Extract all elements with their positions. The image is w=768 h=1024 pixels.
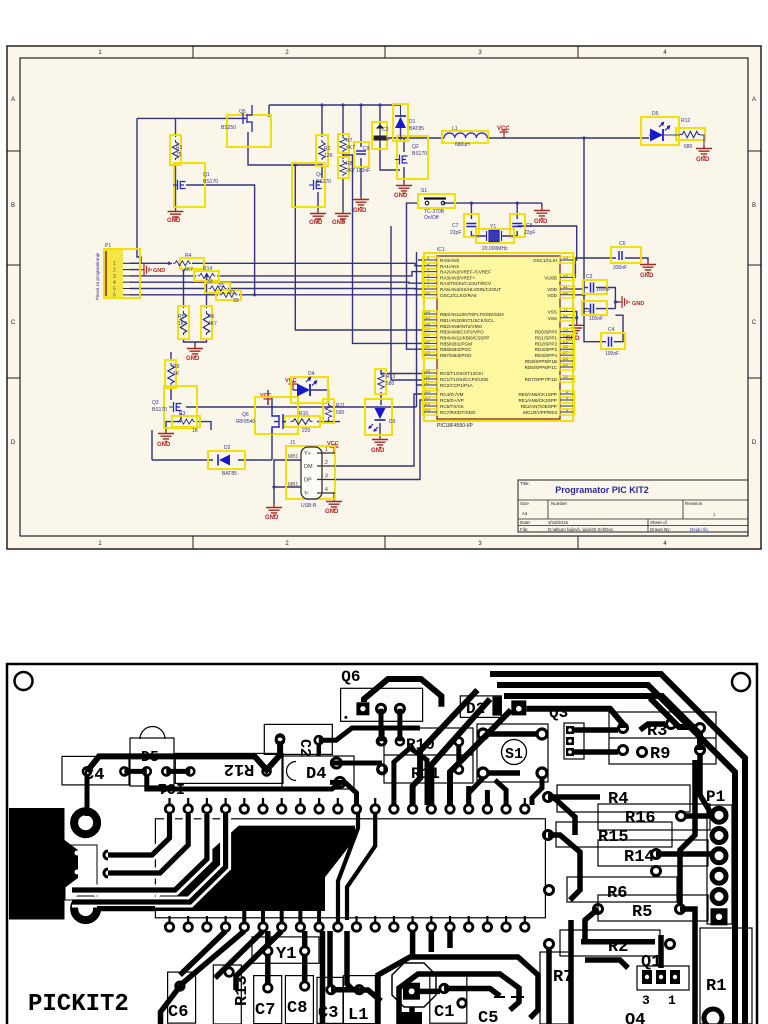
S1 outline [477, 724, 548, 782]
trace diag bottom4 [180, 931, 226, 975]
svg-text:RD6/SPP6/P1C: RD6/SPP6/P1C [525, 365, 558, 370]
trace usb5 [97, 906, 155, 911]
wire gnd stem crystal [541, 203, 543, 207]
svg-text:R3: R3 [647, 722, 667, 741]
svg-text:GND: GND [371, 448, 385, 454]
svg-text:3: 3 [642, 993, 650, 1008]
svg-text:Y-: Y- [304, 491, 309, 497]
wire R9 top [170, 352, 172, 361]
svg-text:4: 4 [113, 280, 116, 286]
ground usb shield [266, 504, 282, 516]
wire R2 top drop [321, 105, 323, 137]
inductor L1 [444, 133, 487, 138]
trace L1 to octagon [359, 990, 381, 1001]
svg-text:GND: GND [394, 193, 408, 199]
component symbols [106, 105, 704, 499]
DIP socket outline [155, 819, 545, 918]
svg-text:Sheet of: Sheet of [650, 520, 668, 525]
switch S1 [424, 199, 446, 205]
ground C6 [640, 261, 656, 273]
svg-text:RB5/KBI1/PGM: RB5/KBI1/PGM [440, 341, 472, 346]
svg-text:Programator PIC KIT2: Programator PIC KIT2 [555, 485, 649, 495]
svg-text:P1: P1 [105, 243, 111, 249]
resistor R13 [378, 373, 384, 390]
wire C3 C5 left plates [584, 288, 588, 309]
wire D2 row [152, 430, 272, 460]
svg-text:100nF: 100nF [589, 316, 603, 322]
wire cap C9 bottom [360, 158, 362, 196]
transistor Q4 [309, 180, 322, 190]
wire Q3 channel gnd [166, 413, 181, 430]
C7 outline [254, 976, 282, 1024]
R4 outline [557, 785, 690, 812]
wire usb vcc pin1 [334, 452, 335, 454]
Q6 outline [341, 688, 423, 721]
svg-text:R9: R9 [173, 364, 180, 370]
svg-text:File:: File: [520, 527, 529, 532]
wire C7 column [471, 203, 485, 236]
svg-text:VUSB: VUSB [544, 275, 557, 280]
capacitor elco C2 [374, 123, 386, 143]
trace Q1 verticals [571, 920, 628, 1024]
box C6 [611, 247, 641, 263]
box R14 [194, 271, 219, 281]
svg-text:A4: A4 [522, 511, 528, 516]
svg-text:R14: R14 [624, 848, 655, 867]
wire Q4 source gnd [317, 192, 319, 210]
resistor R2 [319, 140, 325, 160]
box R6 [201, 306, 212, 339]
R12 outline [175, 753, 283, 783]
wire cap C9 top drop [360, 105, 362, 147]
box P1 body [104, 249, 140, 298]
junction dots [167, 103, 617, 488]
capacitor C5 [591, 304, 594, 314]
bottom component row outlines [168, 937, 570, 1024]
svg-text:GND: GND [534, 219, 548, 225]
box R9 [165, 360, 176, 388]
R5 outline [598, 895, 708, 921]
svg-text:680: 680 [684, 144, 693, 150]
svg-text:Q5: Q5 [239, 109, 246, 115]
svg-text:DM: DM [304, 464, 313, 470]
Y1 outline [252, 937, 319, 963]
box D3 [365, 399, 392, 435]
box R11 [323, 399, 334, 423]
Q6 square pad [356, 702, 369, 715]
box R12 [676, 128, 705, 140]
title block [518, 480, 748, 532]
svg-text:D4: D4 [306, 765, 326, 784]
svg-text:J1: J1 [290, 440, 296, 446]
box Q4 [292, 163, 325, 207]
svg-text:P1: P1 [706, 788, 725, 806]
svg-text:C5: C5 [478, 1009, 498, 1024]
P1 header pcb [706, 788, 732, 925]
trace R15 R14 zig [548, 835, 580, 900]
svg-text:C6: C6 [619, 241, 626, 247]
C2 outline [264, 724, 332, 754]
C8 outline [285, 976, 313, 1024]
svg-text:BS170: BS170 [412, 151, 427, 157]
capacitor C9 [356, 151, 366, 154]
resistor R3 [177, 419, 195, 424]
wire D4 anode [293, 389, 299, 391]
bus wire P1 row6 res33 [130, 294, 255, 296]
box C3 [583, 280, 607, 294]
R1 outline pcb [700, 928, 752, 1024]
svg-text:D5: D5 [652, 111, 659, 117]
ground vss [569, 322, 585, 334]
wire q4 gate vertical into RB3 [295, 165, 424, 330]
box res33b [216, 290, 241, 300]
svg-text:RD2/SPP2: RD2/SPP2 [535, 341, 558, 346]
svg-text:Drawn By:: Drawn By: [650, 527, 671, 532]
box R4 [180, 258, 204, 269]
svg-text:GND: GND [167, 218, 181, 224]
svg-text:4K7: 4K7 [208, 321, 217, 327]
svg-text:RA4/T0CKI/C1OUT/RCV: RA4/T0CKI/C1OUT/RCV [440, 281, 492, 286]
svg-text:R9: R9 [650, 745, 670, 764]
wire R13 to D3 [380, 392, 382, 405]
LED D3 [369, 408, 386, 431]
wire C3 right [596, 288, 619, 309]
wire C4 right up [614, 315, 623, 342]
black pad D1 bottom [399, 1012, 422, 1024]
R10 R11 pads [378, 737, 463, 774]
wire Q2 drain to rail [403, 138, 405, 152]
trace R4 pad [548, 797, 600, 835]
ground usb pin4 [326, 498, 342, 510]
svg-text:GND: GND [157, 442, 171, 448]
svg-text:33: 33 [229, 290, 235, 296]
bus wire P1 row3 R14 [130, 272, 424, 276]
trace Q6 inverted V [364, 679, 441, 707]
R2 outline [560, 930, 660, 956]
box J1 [286, 446, 335, 499]
box Y1 [476, 229, 514, 243]
svg-text:5: 5 [113, 286, 116, 292]
svg-text:VDD: VDD [547, 293, 557, 298]
box R2 [316, 135, 328, 166]
octagon D1 [392, 963, 436, 1007]
svg-text:3/18/2015: 3/18/2015 [548, 520, 569, 525]
svg-text:22pF: 22pF [450, 230, 461, 236]
USB signal pads [104, 851, 112, 877]
wire S1 right to gnd crystal net [443, 202, 542, 204]
svg-text:BS170: BS170 [316, 179, 331, 185]
USB shield pad bottom [74, 897, 97, 920]
svg-text:OSC1/CLKI: OSC1/CLKI [533, 258, 557, 263]
svg-text:GND: GND [696, 157, 710, 163]
svg-text:3: 3 [113, 274, 116, 280]
svg-text:RB1/AN10/INT1/SCK/SCL: RB1/AN10/INT1/SCK/SCL [440, 318, 494, 323]
svg-text:RC5/D+/VP: RC5/D+/VP [440, 398, 464, 403]
transistor Q3 [169, 402, 182, 412]
trace channel 2 [347, 812, 375, 920]
svg-text:Q6: Q6 [341, 668, 360, 686]
wire D4 cathode to R11 [311, 390, 329, 399]
svg-text:R3: R3 [179, 411, 186, 417]
wire Q6 vcc stem [267, 390, 269, 405]
svg-text:R2: R2 [324, 146, 331, 152]
svg-text:C2: C2 [382, 127, 389, 133]
wire R3 row [174, 422, 211, 430]
svg-text:RC6/TX/CK: RC6/TX/CK [440, 404, 465, 409]
bus wire P1 row1 R4 [130, 263, 424, 266]
box D4 [291, 377, 328, 403]
svg-text:R15: R15 [598, 828, 629, 847]
C4 outline [62, 756, 129, 785]
trace diagA [413, 690, 478, 805]
svg-text:1: 1 [325, 447, 328, 453]
box Q3 [164, 386, 197, 428]
ground sideways C3 C5 [619, 296, 629, 308]
transistor Q1 [173, 180, 186, 190]
wire vcc drop to vdd caps [584, 138, 606, 342]
svg-text:GND: GND [640, 273, 654, 279]
L1 outline [343, 976, 375, 1024]
trace tr3 [504, 696, 700, 750]
svg-text:L1: L1 [452, 126, 458, 132]
svg-text:R5: R5 [178, 314, 185, 320]
ground R5 R6 [187, 345, 203, 357]
traces Q3 foot to right [574, 724, 665, 752]
svg-text:GND: GND [332, 220, 346, 226]
bottom pads pour stems [244, 911, 319, 922]
R10 R11 outline [384, 728, 473, 783]
svg-text:Q4: Q4 [316, 172, 323, 178]
svg-text:RE2/AN7/OESPP: RE2/AN7/OESPP [521, 404, 557, 409]
box R7 [338, 134, 349, 153]
wire R1 bottom to gate and gnd [175, 163, 177, 208]
trace C3 verticals [323, 931, 331, 1024]
wire vdd pins join [573, 289, 584, 295]
trace Y1 pads down [268, 956, 305, 983]
svg-text:D: D [752, 440, 757, 446]
top right thick trace bundle [490, 674, 745, 1024]
R13 outline [213, 965, 241, 1024]
svg-text:2K7: 2K7 [346, 168, 355, 174]
svg-text:S1: S1 [505, 746, 523, 763]
wire Q5 drain down and right [248, 132, 322, 165]
svg-text:BS250: BS250 [221, 125, 236, 131]
svg-text:RE1/AN6/CK2SPP: RE1/AN6/CK2SPP [518, 398, 557, 403]
yellow selection boxes [104, 104, 705, 499]
wire usb pin4 gnd [334, 493, 335, 498]
svg-text:L1: L1 [348, 1006, 368, 1024]
svg-text:IC1: IC1 [437, 247, 445, 253]
trace diagB [431, 699, 490, 805]
DIP pads bottom stems [170, 916, 525, 923]
wire R13 top to RC0 [381, 370, 424, 374]
resistor R6 [203, 311, 209, 335]
wire R2 bottom to Q4 gate [321, 163, 323, 178]
svg-text:RB2/AN8/INT2/VMO: RB2/AN8/INT2/VMO [440, 324, 483, 329]
ground R12 [696, 145, 712, 157]
svg-text:Q4: Q4 [625, 1011, 645, 1024]
resistor R14 [198, 273, 216, 278]
svg-text:GND: GND [325, 509, 339, 515]
svg-text:R12: R12 [224, 759, 255, 778]
DIP pads bottom row [165, 923, 529, 931]
svg-text:RC4/D-/VM: RC4/D-/VM [440, 392, 464, 397]
ground C9 [353, 196, 369, 208]
USB region outline [65, 845, 97, 900]
box R3 [172, 416, 200, 427]
svg-text:RC7/RX/DT/SDO: RC7/RX/DT/SDO [440, 410, 476, 415]
wire R10 right to R11 [317, 421, 340, 423]
inner frame [20, 58, 748, 536]
svg-text:VDD: VDD [547, 287, 557, 292]
trace pad topright up1 [394, 748, 427, 805]
svg-text:RA3/AN3/VREF+: RA3/AN3/VREF+ [440, 275, 476, 280]
wire C8 column [503, 203, 517, 236]
trace diag bottom3 [236, 931, 282, 990]
svg-text:C5: C5 [584, 308, 591, 314]
svg-text:100nF: 100nF [356, 168, 370, 174]
svg-text:BAT85: BAT85 [222, 471, 237, 477]
D2 cathode bar [492, 697, 501, 716]
svg-text:R4: R4 [185, 253, 192, 259]
svg-text:4: 4 [325, 487, 328, 493]
IC1 PIC18F4550 [423, 247, 575, 429]
svg-text:4K7: 4K7 [184, 267, 193, 273]
R3 R9 block [609, 712, 716, 764]
svg-text:RA1/AN1: RA1/AN1 [440, 264, 460, 269]
trace x347 vertical [347, 931, 352, 989]
vcc main rail [500, 130, 509, 138]
D4 outline [282, 756, 354, 789]
trace tr1 [490, 674, 745, 1024]
box C5 [582, 301, 607, 315]
svg-text:R4: R4 [608, 790, 628, 809]
svg-text:RB0/AN12/INT0/FLT0/SDI/SDA: RB0/AN12/INT0/FLT0/SDI/SDA [440, 312, 505, 317]
R14 outline [598, 840, 708, 866]
traces bottom area [161, 931, 539, 1024]
traces Q6 pads down [381, 709, 400, 742]
R6 outline [567, 877, 677, 902]
diagonal bundle to lower left [413, 690, 511, 805]
trace Y1 pads up [268, 931, 305, 946]
box S1 [418, 194, 455, 208]
svg-text:R6: R6 [208, 314, 215, 320]
trace tr2 [497, 685, 735, 1024]
wire R11 [328, 399, 330, 422]
trace C2 right to Q6 area [319, 728, 420, 740]
D5 outline [130, 727, 174, 787]
box res33a [205, 283, 230, 293]
capacitor C6 [619, 251, 622, 260]
svg-text:Q2: Q2 [412, 144, 419, 150]
svg-text:DP: DP [304, 478, 312, 484]
svg-text:MB1: MB1 [288, 482, 299, 488]
svg-text:1K7: 1K7 [178, 321, 187, 327]
svg-text:Pinovi za programiranje: Pinovi za programiranje [95, 252, 100, 300]
trace usb4 [72, 813, 226, 902]
trace R9 pad down [700, 755, 712, 815]
box D5 [641, 117, 679, 145]
bottom labels [168, 945, 498, 1024]
svg-text:BAT85: BAT85 [409, 126, 424, 132]
frame labels [11, 50, 757, 547]
svg-text:1K: 1K [173, 371, 180, 377]
box C8 [510, 214, 525, 237]
svg-text:Y1: Y1 [490, 224, 496, 230]
svg-text:R7: R7 [346, 138, 353, 144]
USB-B connector block [9, 808, 78, 920]
ground D3 [372, 436, 388, 448]
svg-text:RA5/AN4/SS/HLVDIN/C2OUT: RA5/AN4/SS/HLVDIN/C2OUT [440, 287, 501, 292]
svg-text:IRF9540: IRF9540 [236, 419, 255, 425]
transistor Q6 [272, 405, 286, 434]
svg-text:Size: Size [520, 501, 529, 506]
svg-text:R1: R1 [706, 977, 726, 996]
svg-text:R11: R11 [336, 403, 345, 409]
svg-text:Y+: Y+ [304, 451, 311, 457]
ground Q3 [158, 430, 174, 442]
S1 circle label [502, 740, 527, 765]
trace C1 loop inner [399, 974, 519, 1024]
trace bottom mid verticals [413, 931, 450, 957]
resistor R1 [172, 140, 178, 160]
svg-text:VSS: VSS [548, 316, 557, 321]
resistor 33a [209, 286, 227, 291]
fiducial top-left [15, 672, 33, 690]
trace C4 top rail with V [87, 742, 280, 771]
trace S1 to pads [469, 778, 542, 805]
svg-text:C9: C9 [363, 146, 370, 152]
capacitor C8 [512, 224, 522, 227]
svg-text:RA2/AN2/VREF-/CVREF: RA2/AN2/VREF-/CVREF [440, 270, 491, 275]
resistor R11 [325, 404, 331, 419]
pad bars [124, 769, 190, 774]
traces resistor column [359, 755, 712, 1024]
wire R6 drop [206, 276, 208, 308]
svg-text:RD7/SPP7/P1D: RD7/SPP7/P1D [525, 377, 558, 382]
wire usb DP to RC5 [335, 400, 424, 480]
svg-text:MB1: MB1 [288, 454, 299, 460]
svg-text:A: A [752, 97, 756, 103]
trace usb3 [72, 813, 207, 890]
wire R5 drop [183, 270, 185, 308]
svg-text:GND: GND [153, 268, 165, 274]
svg-text:330nF: 330nF [613, 265, 627, 271]
trace sq pad to C1 [420, 989, 440, 995]
svg-text:RC2/CCP1/P1A: RC2/CCP1/P1A [440, 383, 474, 388]
svg-text:Q3: Q3 [152, 400, 159, 406]
svg-text:USB-B: USB-B [301, 503, 317, 509]
Q6 round pads [377, 704, 405, 713]
trace from square pad to right [526, 709, 623, 728]
C1 outline [430, 974, 467, 1023]
D4 pads [331, 758, 345, 787]
svg-text:RD3/SPP3: RD3/SPP3 [535, 347, 558, 352]
C2 pad traces [317, 744, 322, 756]
wire R9 bottom to Q3 gate [170, 387, 172, 400]
D4 pad traces [330, 763, 382, 805]
wire Q1 drain to mid vertical [186, 185, 424, 295]
svg-text:C7: C7 [255, 1001, 275, 1020]
svg-text:Number: Number [551, 501, 568, 506]
svg-text:C8: C8 [287, 999, 307, 1018]
svg-text:220: 220 [302, 428, 311, 434]
svg-text:RC1/T1OSI/CCP2/UOE: RC1/T1OSI/CCP2/UOE [440, 377, 489, 382]
svg-text:VSS: VSS [548, 310, 557, 315]
svg-text:C8: C8 [526, 223, 533, 229]
svg-text:PIC18F4550-I/P: PIC18F4550-I/P [437, 423, 474, 429]
trace octagon stub [409, 1007, 415, 1012]
